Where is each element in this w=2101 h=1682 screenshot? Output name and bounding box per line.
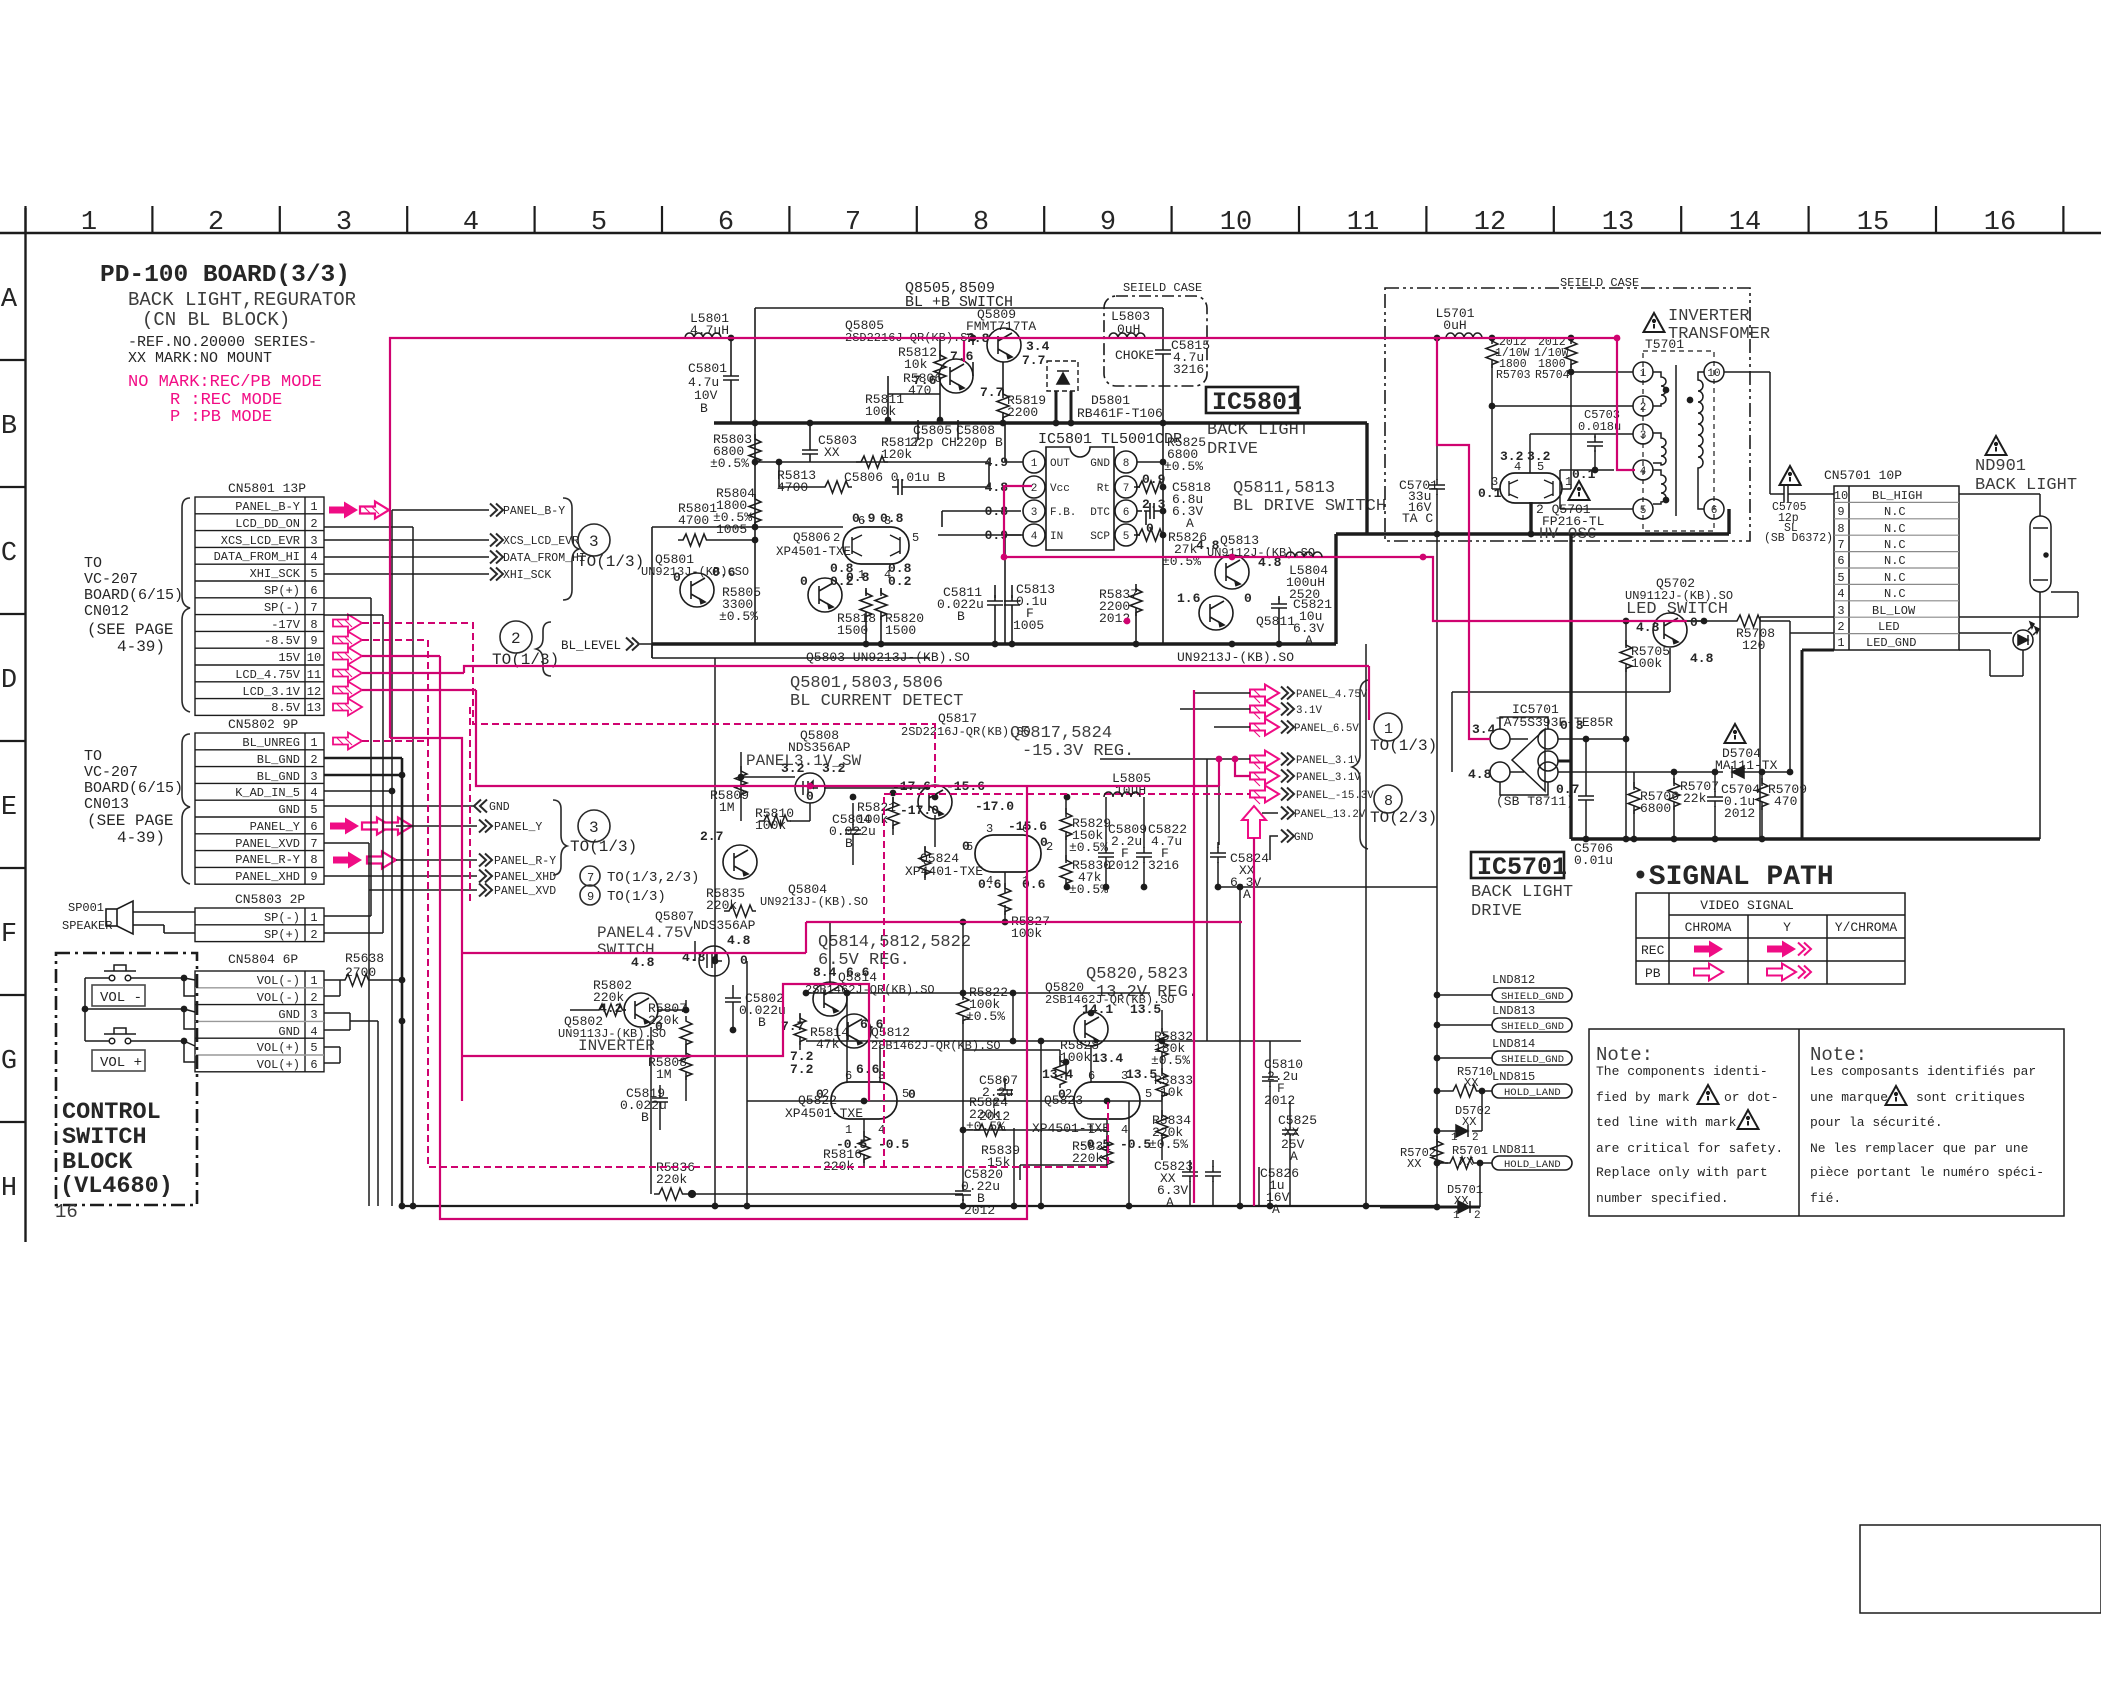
svg-text:F.B.: F.B. [1050,507,1076,519]
svg-text:10k: 10k [904,357,928,372]
svg-text:±0.5%: ±0.5% [1151,1053,1190,1068]
svg-text:XHI_SCK: XHI_SCK [250,567,301,581]
svg-text:4.9: 4.9 [985,455,1009,470]
svg-text:Y/CHROMA: Y/CHROMA [1835,920,1898,935]
svg-text:5: 5 [1837,571,1844,585]
svg-text:K_AD_IN_5: K_AD_IN_5 [235,786,300,800]
svg-text:Q5814,5812,5822: Q5814,5812,5822 [818,933,971,952]
svg-text:8: 8 [1123,458,1130,470]
svg-text:A: A [1243,887,1251,902]
svg-text:XCS_LCD_EVR: XCS_LCD_EVR [503,535,579,548]
svg-text:BL_GND: BL_GND [257,753,300,767]
svg-text:2012: 2012 [1108,858,1139,873]
svg-text:0uH: 0uH [1443,318,1466,333]
svg-text:BL_GND: BL_GND [257,770,300,784]
svg-text:A: A [1290,1149,1298,1164]
svg-text:SP(-): SP(-) [264,601,300,615]
svg-text:VOL -: VOL - [100,990,142,1006]
svg-text:2200: 2200 [1007,405,1038,420]
svg-text:-0.5: -0.5 [878,1137,909,1152]
svg-text:6: 6 [1711,505,1718,517]
svg-text:(SEE PAGE: (SEE PAGE [87,812,173,830]
svg-text:0: 0 [673,570,681,585]
svg-text:100k: 100k [1631,656,1662,671]
svg-text:120k: 120k [881,447,912,462]
svg-text:number specified.: number specified. [1596,1191,1729,1206]
svg-text:1: 1 [310,974,317,988]
svg-text:N.C: N.C [1884,554,1906,568]
svg-text:47k: 47k [816,1037,840,1052]
svg-text:A: A [1186,516,1194,531]
svg-text:SL: SL [1784,522,1798,535]
svg-text:22k: 22k [1683,791,1707,806]
svg-text:PANEL4.75V: PANEL4.75V [597,924,693,942]
svg-text:sont critiques: sont critiques [1916,1090,2025,1105]
svg-text:3.2: 3.2 [1500,449,1524,464]
svg-text:B: B [700,401,708,416]
svg-text:11: 11 [1347,208,1379,238]
svg-text:B: B [758,1015,766,1030]
svg-text:0.9: 0.9 [852,511,876,526]
svg-text:Q5801,5803,5806: Q5801,5803,5806 [790,674,943,693]
svg-text:XHI_SCK: XHI_SCK [503,569,551,582]
svg-text:A: A [1272,1202,1280,1217]
svg-text:0.8: 0.8 [846,570,870,585]
svg-text:5: 5 [310,567,317,581]
svg-text:3: 3 [310,770,317,784]
svg-text:1.6: 1.6 [1177,591,1201,606]
svg-text:GND: GND [278,803,300,817]
svg-text:PANEL_XHD: PANEL_XHD [235,870,300,884]
svg-text:3.4: 3.4 [1026,339,1050,354]
svg-text:pièce portant le numéro spéci-: pièce portant le numéro spéci- [1810,1165,2044,1180]
svg-text:0.018u: 0.018u [1578,420,1621,434]
svg-text:1500: 1500 [837,623,868,638]
svg-text:1: 1 [310,500,317,514]
svg-text:10: 10 [1834,489,1848,503]
svg-text:14.1: 14.1 [1082,1002,1113,1017]
svg-text:5: 5 [1145,1087,1152,1101]
svg-text:3: 3 [1837,604,1844,618]
svg-text:1: 1 [1451,1132,1458,1144]
svg-text:10: 10 [1220,208,1252,238]
svg-text:E: E [1,793,17,823]
svg-text:3: 3 [589,819,599,837]
svg-text:4.8: 4.8 [631,955,655,970]
svg-text:UN9213J-(KB).SO: UN9213J-(KB).SO [760,895,868,909]
svg-text:une marque: une marque [1810,1090,1888,1105]
svg-text:Ne les remplacer que par une: Ne les remplacer que par une [1810,1141,2028,1156]
svg-text:PANEL_XHD: PANEL_XHD [494,871,556,884]
svg-text:VOL(-): VOL(-) [257,991,300,1005]
svg-text:4: 4 [463,208,479,238]
svg-text:LED SWITCH: LED SWITCH [1626,600,1728,619]
svg-text:±0.5%: ±0.5% [1164,459,1203,474]
svg-text:BLOCK: BLOCK [62,1149,133,1176]
svg-text:GND: GND [489,801,510,814]
svg-text:4.8: 4.8 [1636,620,1660,635]
svg-text:7.2: 7.2 [790,1062,814,1077]
svg-text:8.5V: 8.5V [271,701,301,715]
svg-text:0: 0 [1244,591,1252,606]
svg-text:SHIELD_GND: SHIELD_GND [1501,1021,1564,1033]
svg-text:CONTROL: CONTROL [62,1099,161,1126]
svg-text:IC5801: IC5801 [1212,388,1302,417]
svg-text:REC: REC [1641,943,1665,958]
svg-text:PANEL_XVD: PANEL_XVD [235,837,300,851]
svg-text:Y: Y [1783,920,1791,935]
svg-text:GND: GND [278,1008,300,1022]
svg-text:IC5701: IC5701 [1477,853,1567,882]
svg-text:7.7: 7.7 [980,385,1003,400]
svg-text:ted line with mark: ted line with mark [1596,1115,1737,1130]
svg-text:IC5801 TL5001CDR: IC5801 TL5001CDR [1038,431,1182,448]
svg-text:13.4: 13.4 [1092,1051,1123,1066]
svg-text:(CN BL BLOCK): (CN BL BLOCK) [142,309,290,331]
svg-text:•SIGNAL PATH: •SIGNAL PATH [1632,862,1834,893]
svg-text:LCD_4.75V: LCD_4.75V [235,668,301,682]
svg-text:6800: 6800 [1640,801,1671,816]
svg-text:220k: 220k [648,1013,679,1028]
svg-text:XX: XX [1407,1157,1421,1171]
svg-text:R5704: R5704 [1535,369,1570,382]
svg-text:0.8: 0.8 [880,511,904,526]
svg-text:B: B [1,412,17,442]
svg-text:4.8: 4.8 [1690,651,1714,666]
svg-text:Note:: Note: [1596,1044,1653,1066]
svg-text:Vcc: Vcc [1050,483,1070,495]
svg-text:BACK LIGHT: BACK LIGHT [1975,476,2077,495]
svg-text:N.C: N.C [1884,538,1906,552]
svg-text:0: 0 [962,839,970,854]
svg-text:-15.3V REG.: -15.3V REG. [1022,742,1134,761]
svg-text:-8.5V: -8.5V [264,634,301,648]
svg-text:8: 8 [1384,793,1393,810]
svg-text:8: 8 [1837,522,1844,536]
svg-text:BACK LIGHT,REGURATOR: BACK LIGHT,REGURATOR [128,289,356,311]
svg-text:INVERTER: INVERTER [1668,307,1750,326]
svg-text:CHOKE: CHOKE [1115,348,1154,363]
svg-text:14: 14 [1729,208,1761,238]
svg-text:7: 7 [310,837,317,851]
svg-text:9: 9 [587,890,594,904]
svg-text:4: 4 [1121,1123,1128,1137]
svg-text:LND811: LND811 [1492,1143,1535,1157]
svg-text:3.1V: 3.1V [1296,705,1322,717]
svg-text:OUT: OUT [1050,458,1070,470]
svg-text:4-39): 4-39) [117,829,165,847]
svg-text:7: 7 [587,871,594,885]
svg-text:10: 10 [1707,368,1720,380]
svg-text:PANEL_B-Y: PANEL_B-Y [503,505,565,518]
svg-text:or dot-: or dot- [1724,1090,1779,1105]
svg-text:6: 6 [718,208,734,238]
svg-text:4: 4 [310,786,317,800]
svg-text:PANEL_6.5V: PANEL_6.5V [1294,723,1359,735]
svg-text:7.6: 7.6 [950,349,974,364]
svg-text:PANEL_B-Y: PANEL_B-Y [235,500,300,514]
svg-text:1: 1 [310,911,317,925]
svg-text:10: 10 [307,651,321,665]
svg-text:BL DRIVE SWITCH: BL DRIVE SWITCH [1233,497,1386,516]
svg-text:LND812: LND812 [1492,973,1535,987]
svg-text:470: 470 [1774,794,1797,809]
svg-text:Rt: Rt [1097,483,1110,495]
svg-text:15: 15 [1857,208,1889,238]
svg-text:±0.5%: ±0.5% [719,609,758,624]
svg-text:Q5807: Q5807 [655,909,694,924]
svg-text:11: 11 [307,668,321,682]
svg-text:TA C: TA C [1402,511,1433,526]
svg-text:H: H [1,1174,17,1204]
svg-text:4700: 4700 [678,513,709,528]
svg-text:6: 6 [310,584,317,598]
svg-text:3216: 3216 [1148,858,1179,873]
svg-text:TO(1/3,2/3): TO(1/3,2/3) [607,870,699,886]
svg-text:fied by mark: fied by mark [1596,1090,1690,1105]
svg-text:0: 0 [655,1019,663,1034]
svg-text:(SEE PAGE: (SEE PAGE [87,621,173,639]
svg-text:6: 6 [1837,554,1844,568]
svg-text:LED: LED [1878,620,1900,634]
svg-text:0: 0 [1690,615,1698,630]
svg-text:DATA_FROM_HI: DATA_FROM_HI [214,550,300,564]
svg-text:BL_HIGH: BL_HIGH [1872,489,1922,503]
svg-text:0: 0 [806,789,814,804]
svg-text:4.8: 4.8 [1468,767,1492,782]
svg-text:VOL(+): VOL(+) [257,1041,300,1055]
svg-text:6: 6 [310,1058,317,1072]
svg-text:7: 7 [1123,483,1130,495]
svg-text:0.9: 0.9 [1142,472,1166,487]
svg-text:XCS_LCD_EVR: XCS_LCD_EVR [221,534,300,548]
svg-text:1005: 1005 [1013,618,1044,633]
svg-text:BL_LEVEL: BL_LEVEL [561,639,621,653]
svg-text:TO(1/3): TO(1/3) [1370,737,1437,755]
svg-text:SHIELD_GND: SHIELD_GND [1501,991,1564,1003]
svg-text:LCD_3.1V: LCD_3.1V [242,685,300,699]
svg-text:TO(1/3): TO(1/3) [577,553,644,571]
svg-text:2: 2 [1031,483,1038,495]
svg-text:LCD_DD_ON: LCD_DD_ON [235,517,300,531]
svg-text:3: 3 [589,533,599,551]
svg-text:N.C: N.C [1884,587,1906,601]
svg-text:16: 16 [55,1201,78,1223]
svg-text:N.C: N.C [1884,571,1906,585]
svg-text:2: 2 [310,517,317,531]
svg-text:B: B [641,1110,649,1125]
svg-text:PANEL_4.75V: PANEL_4.75V [1296,689,1368,701]
svg-text:N.C: N.C [1884,522,1906,536]
svg-text:0: 0 [816,1087,824,1102]
svg-text:3.2: 3.2 [781,761,805,776]
svg-text:1: 1 [845,1123,852,1137]
svg-text:Q5817: Q5817 [938,711,977,726]
svg-text:BL CURRENT DETECT: BL CURRENT DETECT [790,692,963,711]
svg-text:XX MARK:NO MOUNT: XX MARK:NO MOUNT [128,350,272,367]
svg-text:5: 5 [310,803,317,817]
svg-text:IN: IN [1050,531,1063,543]
svg-text:BACK LIGHT: BACK LIGHT [1471,883,1573,902]
svg-text:LND815: LND815 [1492,1070,1535,1084]
svg-text:Q5817,5824: Q5817,5824 [1010,724,1112,743]
svg-text:12: 12 [307,685,321,699]
svg-text:GND: GND [278,1025,300,1039]
svg-text:LND813: LND813 [1492,1004,1535,1018]
svg-text:5: 5 [912,531,919,545]
svg-text:8: 8 [310,618,317,632]
svg-text:VC-207: VC-207 [84,764,138,781]
svg-text:VOL +: VOL + [100,1055,142,1071]
svg-text:Replace only with part: Replace only with part [1596,1165,1768,1180]
svg-text:B: B [957,609,965,624]
svg-text:HV OSC: HV OSC [1539,525,1597,543]
svg-text:VIDEO SIGNAL: VIDEO SIGNAL [1700,898,1794,913]
svg-text:BL_UNREG: BL_UNREG [242,736,300,750]
svg-text:1M: 1M [656,1067,672,1082]
svg-text:2: 2 [833,531,840,545]
svg-text:1500: 1500 [885,623,916,638]
svg-text:13: 13 [307,701,321,715]
svg-text:2: 2 [1472,1132,1479,1144]
svg-text:9: 9 [1837,505,1844,519]
svg-text:fié.: fié. [1810,1191,1841,1206]
svg-text:6.6: 6.6 [860,1017,884,1032]
svg-text:PANEL_Y: PANEL_Y [250,820,300,834]
svg-text:SPEAKER: SPEAKER [62,919,112,933]
svg-text:A: A [1166,1195,1174,1210]
svg-text:3: 3 [310,1008,317,1022]
svg-text:N.C: N.C [1884,505,1906,519]
svg-text:6: 6 [845,1069,852,1083]
svg-text:2: 2 [1065,1087,1072,1101]
svg-text:4: 4 [310,550,317,564]
svg-text:13.5: 13.5 [1126,1067,1157,1082]
svg-text:PANEL_XVD: PANEL_XVD [494,885,556,898]
svg-text:13.5: 13.5 [1130,1002,1161,1017]
svg-text:PANEL_Y: PANEL_Y [494,821,542,834]
svg-text:CN5801 13P: CN5801 13P [228,481,306,496]
svg-text:SCP: SCP [1090,531,1110,543]
svg-text:2.3: 2.3 [1142,497,1166,512]
svg-text:6.6: 6.6 [856,1062,880,1077]
svg-text:PANEL_-15.3V: PANEL_-15.3V [1296,790,1374,802]
svg-text:7.7: 7.7 [1022,353,1045,368]
svg-text:SEIELD CASE: SEIELD CASE [1123,281,1202,295]
svg-text:CN5803 2P: CN5803 2P [235,892,305,907]
svg-text:(SB D6372): (SB D6372) [1764,532,1833,545]
svg-text:5: 5 [1123,531,1130,543]
svg-text:6: 6 [1123,507,1130,519]
svg-text:0: 0 [908,1087,916,1102]
svg-text:(VL4680): (VL4680) [60,1173,173,1200]
svg-text:13: 13 [1602,208,1634,238]
svg-text:A: A [1,285,18,315]
svg-text:INVERTER: INVERTER [578,1037,655,1055]
svg-text:DRIVE: DRIVE [1207,440,1258,459]
svg-text:8: 8 [973,208,989,238]
svg-text:3: 3 [336,208,352,238]
svg-text:-17.0: -17.0 [900,803,939,818]
svg-text:PANEL_3.1V: PANEL_3.1V [1296,755,1361,767]
svg-text:4.7uH: 4.7uH [690,323,729,338]
svg-text:1: 1 [1837,636,1844,650]
svg-text:DTC: DTC [1090,507,1110,519]
svg-text:XP4401-TXE: XP4401-TXE [905,864,983,879]
svg-text:7: 7 [1837,538,1844,552]
svg-text:3: 3 [986,822,993,836]
svg-text:R5703: R5703 [1496,369,1531,382]
svg-text:5: 5 [591,208,607,238]
svg-text:6: 6 [310,820,317,834]
svg-text:1: 1 [81,208,97,238]
svg-text:LND814: LND814 [1492,1037,1535,1051]
svg-text:CN012: CN012 [84,603,129,620]
svg-text:B: B [845,836,853,851]
svg-text:D: D [1,666,17,696]
svg-text:9: 9 [310,870,317,884]
svg-text:1: 1 [310,736,317,750]
svg-text:4.8: 4.8 [727,933,751,948]
svg-text:PANEL_R-Y: PANEL_R-Y [235,853,300,867]
svg-text:1: 1 [1031,458,1038,470]
svg-text:Q5806: Q5806 [793,531,831,545]
svg-text:0: 0 [800,574,808,589]
svg-text:The components identi-: The components identi- [1596,1064,1768,1079]
svg-text:XX: XX [1462,1115,1476,1129]
svg-text:XX: XX [824,445,840,460]
svg-text:SHIELD_GND: SHIELD_GND [1501,1054,1564,1066]
svg-text:0: 0 [1040,835,1048,850]
svg-text:XP4501-TXE: XP4501-TXE [1032,1121,1110,1136]
svg-text:BOARD(6/15): BOARD(6/15) [84,587,183,604]
svg-text:0: 0 [1058,1087,1066,1102]
svg-text:4: 4 [310,1025,317,1039]
svg-text:7.6: 7.6 [913,373,937,388]
svg-text:NO MARK:REC/PB MODE: NO MARK:REC/PB MODE [128,373,322,392]
svg-text:A: A [1305,633,1313,648]
svg-text:1: 1 [1453,1210,1460,1222]
svg-text:CN5804 6P: CN5804 6P [228,952,298,967]
svg-text:3.2: 3.2 [1527,449,1551,464]
svg-text:R5638: R5638 [345,951,384,966]
svg-text:HOLD_LAND: HOLD_LAND [1504,1159,1561,1171]
svg-text:2: 2 [208,208,224,238]
svg-text:0.6: 0.6 [1022,877,1046,892]
svg-text:T5701: T5701 [1645,337,1684,352]
svg-text:SP(+): SP(+) [264,928,300,942]
svg-text:5: 5 [1640,505,1647,517]
svg-text:CN5701 10P: CN5701 10P [1824,468,1902,483]
svg-text:F: F [1,920,17,950]
svg-text:2: 2 [310,753,317,767]
svg-text:0.1: 0.1 [1478,486,1502,501]
svg-text:ND901: ND901 [1975,457,2026,476]
svg-text:2: 2 [1640,402,1647,414]
svg-text:0.2: 0.2 [888,574,912,589]
svg-text:-REF.NO.20000 SERIES-: -REF.NO.20000 SERIES- [128,334,317,351]
svg-text:±0.5%: ±0.5% [966,1009,1005,1024]
svg-text:TO(1/3): TO(1/3) [607,889,666,905]
svg-text:15V: 15V [278,651,300,665]
svg-text:Q5820,5823: Q5820,5823 [1086,965,1188,984]
svg-text:0.7: 0.7 [1556,782,1579,797]
svg-text:3: 3 [1640,430,1647,442]
svg-text:PD-100 BOARD(3/3): PD-100 BOARD(3/3) [100,262,350,289]
svg-text:2.7: 2.7 [700,829,723,844]
svg-text:PB: PB [1645,966,1661,981]
svg-text:NDS356AP: NDS356AP [693,918,756,933]
